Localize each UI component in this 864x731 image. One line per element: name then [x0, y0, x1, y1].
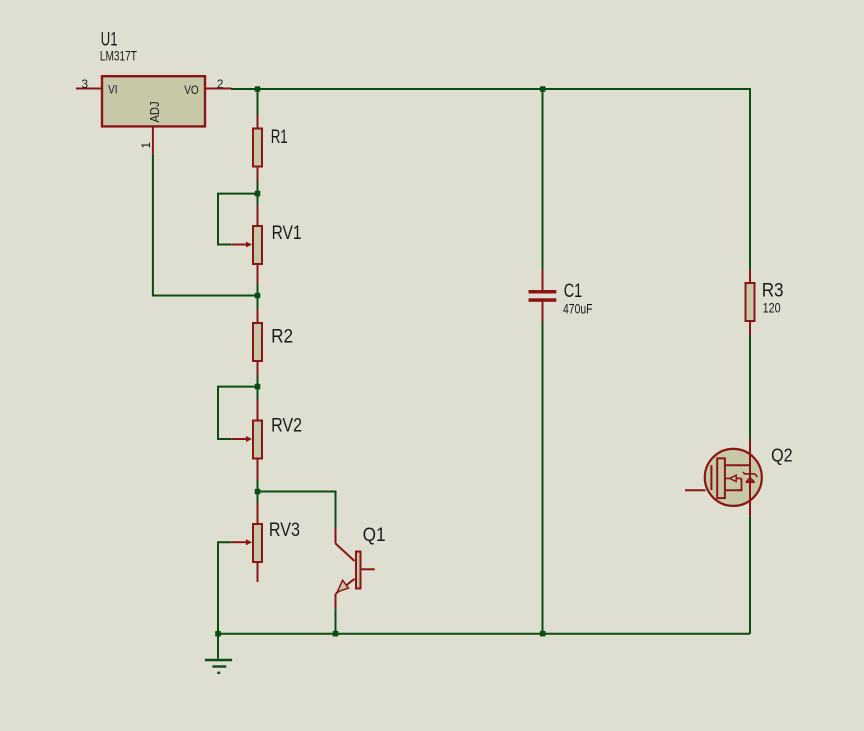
- svg-text:3: 3: [82, 77, 89, 91]
- svg-text:RV1: RV1: [272, 223, 302, 244]
- svg-text:C1: C1: [564, 281, 582, 302]
- svg-text:Q1: Q1: [363, 525, 386, 546]
- svg-text:ADJ: ADJ: [147, 102, 162, 123]
- svg-text:Q2: Q2: [771, 446, 793, 466]
- svg-text:470uF: 470uF: [563, 302, 593, 317]
- svg-text:LM317T: LM317T: [100, 49, 137, 64]
- svg-text:VI: VI: [108, 84, 117, 96]
- svg-text:R2: R2: [271, 326, 293, 347]
- svg-text:RV2: RV2: [271, 416, 302, 437]
- svg-text:2: 2: [217, 77, 224, 91]
- svg-text:120: 120: [763, 301, 781, 316]
- svg-text:R1: R1: [271, 127, 288, 148]
- svg-text:U1: U1: [101, 29, 118, 50]
- svg-text:VO: VO: [184, 85, 199, 97]
- svg-text:RV3: RV3: [269, 520, 300, 541]
- svg-text:1: 1: [139, 142, 153, 149]
- svg-text:R3: R3: [762, 281, 784, 302]
